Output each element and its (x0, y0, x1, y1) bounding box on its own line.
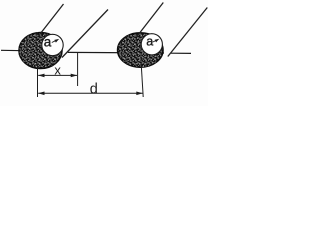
svg-text:d: d (90, 82, 98, 98)
left label a arrow (52, 40, 57, 42)
surface line right segment (171, 52, 191, 54)
svg-text:a: a (44, 34, 52, 49)
right extension line (141, 64, 143, 97)
right weld nugget ellipse (118, 33, 163, 67)
left electrode circle a (42, 34, 63, 55)
left beam line (diag 1) (39, 4, 64, 36)
left-mid beam line (diag 2) (62, 10, 108, 58)
x left arrowhead (38, 74, 45, 78)
right label a arrow (153, 40, 157, 42)
right electrode circle a (141, 34, 162, 55)
dimension line d (38, 92, 142, 94)
svg-text:x: x (54, 63, 61, 78)
d right arrowhead (136, 92, 143, 96)
x right arrowhead (71, 74, 78, 78)
left extension line (37, 64, 39, 97)
surface line middle segment (68, 51, 164, 54)
d left arrowhead (38, 92, 45, 96)
middle extension line (77, 52, 79, 86)
left weld nugget ellipse (19, 33, 62, 69)
surface line left segment (1, 50, 63, 51)
far-right beam line (diag 4) (168, 8, 208, 57)
svg-text:a: a (146, 34, 153, 48)
right beam line (diag 3) (137, 3, 164, 38)
dimension line x (38, 74, 77, 76)
